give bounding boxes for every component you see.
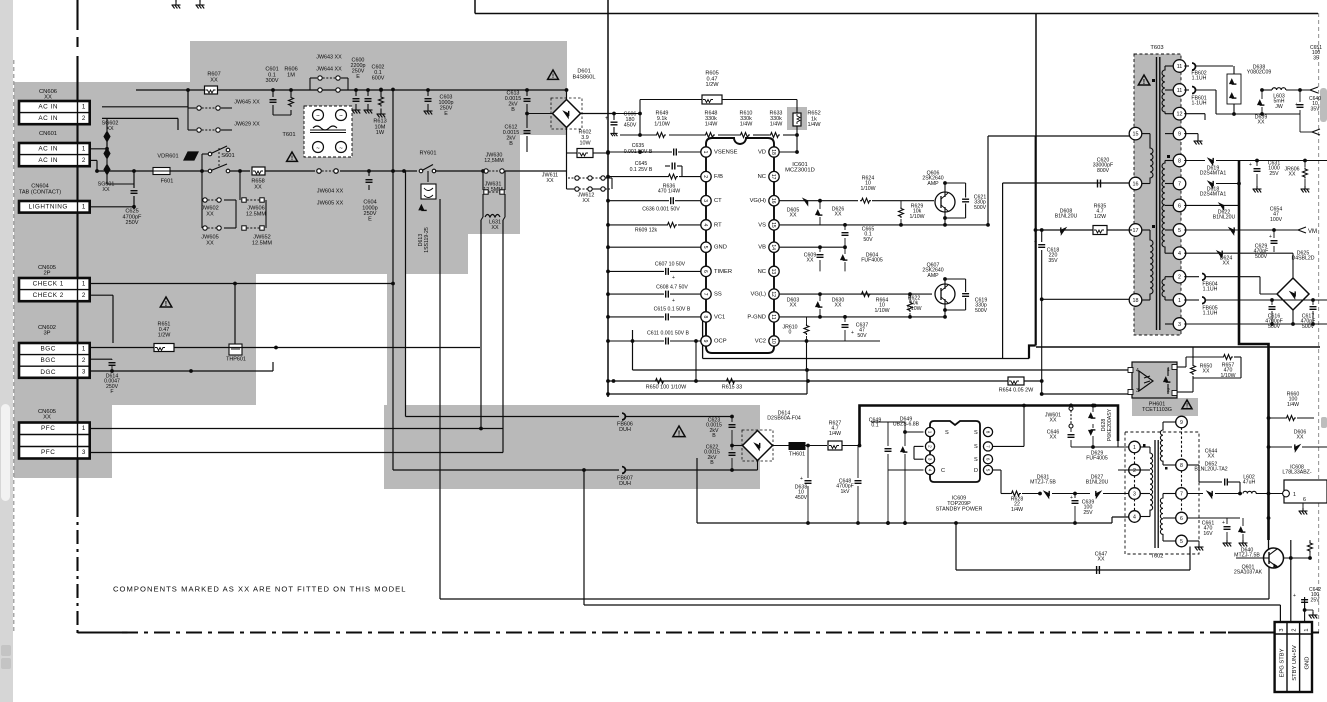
- svg-text:+: +: [1249, 162, 1252, 168]
- svg-text:C611 0.001 50V B: C611 0.001 50V B: [647, 330, 690, 336]
- IC601 pin 5 GND: [701, 242, 711, 252]
- T603 pin 16 left: [1129, 177, 1142, 190]
- wire pin2 T602: [1118, 469, 1140, 471]
- svg-text:9: 9: [702, 340, 708, 343]
- wire pin9 to lower rail: [695, 341, 697, 381]
- svg-text:1/4W: 1/4W: [829, 431, 841, 437]
- vertical x235 to THP601: [234, 284, 236, 345]
- svg-text:B4S860L: B4S860L: [572, 74, 595, 80]
- svg-text:JW643 XX: JW643 XX: [316, 54, 342, 60]
- svg-text:STBY UN+5V: STBY UN+5V: [1292, 645, 1298, 681]
- svg-text:+: +: [672, 298, 675, 304]
- svg-text:1/4W: 1/4W: [770, 121, 783, 127]
- gray block G narrow column: [387, 274, 406, 406]
- gray box T603: [1134, 54, 1181, 335]
- svg-text:3: 3: [1279, 628, 1285, 631]
- wire horizontal y347: [1036, 346, 1320, 348]
- T603 core: [1156, 57, 1158, 330]
- svg-text:F601: F601: [161, 179, 174, 185]
- wire y136 T603 pin15 row: [988, 135, 1132, 137]
- connector CN602: [19, 343, 90, 378]
- svg-text:25V: 25V: [1311, 597, 1321, 603]
- svg-text:2SA1037AK: 2SA1037AK: [1234, 570, 1263, 576]
- T602 pin 3: [1129, 488, 1141, 500]
- svg-text:7: 7: [1178, 181, 1181, 187]
- svg-text:13: 13: [770, 269, 776, 275]
- gray strip FB606/FB607: [384, 405, 760, 489]
- svg-text:500V: 500V: [1268, 324, 1281, 330]
- svg-text:BGC: BGC: [41, 346, 56, 353]
- svg-text:1W: 1W: [376, 130, 385, 136]
- svg-text:EPG STBY: EPG STBY: [1280, 648, 1286, 677]
- svg-text:16: 16: [1133, 181, 1139, 187]
- svg-text:XX: XX: [1098, 557, 1105, 563]
- svg-text:JW604 XX: JW604 XX: [317, 189, 344, 195]
- T603 pin 11 right: [1173, 84, 1186, 97]
- svg-text:B1NL20U: B1NL20U: [1213, 215, 1236, 221]
- svg-text:XX: XX: [582, 198, 590, 204]
- svg-text:PFC: PFC: [41, 425, 55, 432]
- svg-text:RY601: RY601: [419, 151, 436, 157]
- svg-text:!: !: [1143, 77, 1145, 86]
- T603 pin 5 right: [1173, 224, 1186, 237]
- resistor R658: [252, 167, 265, 175]
- left page edge strip: [0, 0, 13, 702]
- svg-text:3: 3: [82, 449, 86, 456]
- T603 phase marks: [1152, 79, 1155, 82]
- svg-text:S: S: [974, 457, 978, 463]
- gray block H: [406, 135, 520, 197]
- T603 winding right 11-12: [1162, 66, 1165, 114]
- IC609 pin 2: [925, 442, 934, 451]
- wire resistor row y135: [620, 134, 655, 136]
- svg-text:XX: XX: [206, 240, 214, 246]
- vertical x393: [392, 90, 394, 471]
- svg-text:16V: 16V: [1203, 531, 1213, 537]
- svg-text:7: 7: [985, 445, 990, 448]
- T602 pin 7: [1176, 488, 1188, 500]
- svg-text:3: 3: [927, 458, 932, 461]
- gray block A top: [190, 41, 567, 135]
- svg-text:AC IN: AC IN: [38, 146, 58, 153]
- svg-text:6: 6: [702, 270, 708, 273]
- ground pin9 T603: [1184, 133, 1198, 135]
- svg-text:COMPONENTS MARKED AS XX ARE NO: COMPONENTS MARKED AS XX ARE NOT FITTED O…: [113, 585, 407, 594]
- svg-text:12.5MM: 12.5MM: [246, 211, 267, 217]
- svg-text:5: 5: [985, 469, 990, 472]
- op-amp IC601 body: [706, 138, 774, 353]
- junction dots left: [105, 147, 109, 151]
- svg-text:CT: CT: [714, 198, 722, 204]
- ferrite bead FB607: [622, 467, 625, 474]
- wire CN601 pins to spark gaps: [89, 148, 107, 150]
- svg-text:6: 6: [1178, 203, 1181, 209]
- svg-text:300V: 300V: [265, 78, 278, 84]
- gray block C mid: [14, 197, 468, 274]
- svg-text:1/10W: 1/10W: [910, 214, 925, 220]
- svg-text:XX: XX: [835, 303, 842, 309]
- svg-text:D2S4MTA1: D2S4MTA1: [1200, 192, 1227, 198]
- ferrite bead FB604: [1202, 274, 1205, 281]
- T603 pin 9 right: [1173, 127, 1186, 140]
- T602 pin 4: [1129, 511, 1141, 523]
- svg-text:S601: S601: [221, 153, 235, 159]
- svg-text:2P: 2P: [43, 271, 50, 277]
- svg-text:25V: 25V: [1269, 171, 1279, 177]
- wire y300 T603 pin18 row: [1042, 298, 1132, 300]
- svg-text:VDR601: VDR601: [157, 154, 178, 160]
- svg-text:TAB (CONTACT): TAB (CONTACT): [19, 189, 61, 195]
- wire VS y224.9: [779, 224, 988, 226]
- svg-text:!: !: [165, 299, 167, 308]
- svg-text:VC2: VC2: [755, 339, 766, 345]
- capacitor C644 xx: [1213, 481, 1222, 483]
- warning triangle near T601: [287, 152, 298, 161]
- wire CN606 pin1: [101, 106, 103, 108]
- wire bridge D601 connections: [527, 113, 553, 115]
- svg-text:XX: XX: [1050, 418, 1057, 424]
- svg-text:VD: VD: [758, 150, 766, 156]
- svg-text:C608 4.7 50V: C608 4.7 50V: [656, 284, 688, 290]
- svg-text:14: 14: [770, 244, 776, 250]
- connector CN605 CHECK: [19, 278, 90, 301]
- wire FB607 row y469: [393, 469, 619, 471]
- svg-text:S: S: [974, 444, 978, 450]
- T603 pin 17 left: [1129, 224, 1142, 237]
- svg-text:1/4W: 1/4W: [1287, 402, 1299, 408]
- svg-text:F/B: F/B: [714, 174, 723, 180]
- T602 winding right 7-5: [1160, 494, 1163, 542]
- svg-text:XX: XX: [1289, 172, 1296, 178]
- gray block B left big: [14, 82, 406, 197]
- svg-text:E: E: [444, 111, 448, 117]
- svg-text:D2S4MTA1: D2S4MTA1: [1200, 171, 1227, 177]
- svg-text:SS: SS: [714, 292, 722, 298]
- right edge resistor: [1308, 542, 1313, 553]
- svg-text:4: 4: [1136, 368, 1139, 374]
- T603 pin 2 right: [1173, 270, 1186, 283]
- svg-text:1: 1: [1133, 445, 1136, 451]
- svg-text:8: 8: [1180, 463, 1183, 469]
- svg-text:GND: GND: [714, 245, 727, 251]
- transistor Q601: [1264, 548, 1284, 568]
- wire pin5 row VM: [1184, 229, 1298, 231]
- thermistor TH601: [789, 443, 805, 450]
- svg-text:AC IN: AC IN: [38, 157, 58, 164]
- T603 pin 6 right: [1173, 199, 1186, 212]
- IC601 pin 3 CT: [701, 196, 711, 206]
- svg-text:AC IN: AC IN: [38, 104, 58, 111]
- svg-text:12: 12: [1177, 112, 1183, 118]
- svg-text:XX: XX: [790, 213, 797, 219]
- svg-text:XX: XX: [1258, 120, 1265, 126]
- svg-text:DUH: DUH: [619, 481, 631, 487]
- fuse F601: [153, 168, 170, 175]
- wire pin5 T602 ground: [1187, 540, 1199, 542]
- svg-text:+: +: [605, 116, 609, 122]
- svg-text:R650 100 1/10W: R650 100 1/10W: [646, 384, 687, 390]
- T603 pin 12 right: [1173, 107, 1186, 120]
- board boundary bottom dash-dot: [78, 631, 123, 633]
- gray block F pfc: [14, 405, 112, 478]
- wire pin9 dash: [1181, 427, 1183, 459]
- svg-text:D4SBL2D: D4SBL2D: [1291, 256, 1314, 262]
- svg-text:25V: 25V: [1083, 510, 1093, 516]
- IC609 pin 5: [983, 465, 992, 474]
- svg-text:XX: XX: [1203, 369, 1210, 375]
- warning triangle FB strip: [673, 426, 685, 437]
- svg-text:VB: VB: [758, 245, 766, 251]
- IC601 pin 18 VD: [769, 147, 779, 157]
- svg-text:TH601: TH601: [789, 451, 805, 457]
- svg-text:8: 8: [1178, 158, 1181, 164]
- connector CN606: [19, 101, 90, 124]
- svg-text:XX: XX: [546, 178, 554, 184]
- svg-text:T602: T602: [1151, 554, 1164, 560]
- optocoupler PH601: [1132, 362, 1177, 398]
- IC601 pin 16 VG(H): [769, 196, 779, 206]
- T603 pin 18 left: [1129, 294, 1142, 307]
- svg-text:TCET1103G: TCET1103G: [1142, 407, 1172, 413]
- svg-text:35: 35: [1313, 55, 1319, 61]
- IC601 pin 2 F/B: [701, 171, 711, 181]
- T602 winding left 1-4: [1150, 447, 1153, 517]
- wire Q601 base: [1236, 557, 1269, 559]
- wire pin5/pin6 rows T603 right: [1184, 204, 1239, 206]
- svg-text:1: 1: [82, 281, 86, 288]
- T602 pin 9: [1176, 416, 1188, 428]
- wire pin3 row: [1184, 323, 1327, 325]
- svg-text:5: 5: [1178, 228, 1181, 234]
- svg-text:LIGHTNING: LIGHTNING: [29, 204, 68, 211]
- ferrite bead FB602: [1192, 63, 1196, 70]
- resistor R650 on rail: [654, 379, 665, 384]
- svg-text:2: 2: [1167, 388, 1170, 394]
- svg-text:10: 10: [770, 338, 776, 344]
- svg-text:!: !: [678, 428, 681, 437]
- svg-text:L78L33ABZ-: L78L33ABZ-: [1282, 470, 1311, 476]
- svg-text:18: 18: [770, 149, 776, 155]
- svg-text:VM: VM: [1308, 229, 1317, 235]
- svg-text:!: !: [291, 155, 293, 162]
- svg-text:1: 1: [82, 204, 86, 211]
- net arrow A: [1310, 87, 1318, 93]
- svg-text:3: 3: [1136, 388, 1139, 394]
- svg-text:5: 5: [702, 246, 708, 249]
- wire P-GND y316.9: [779, 316, 945, 318]
- svg-text:7: 7: [702, 293, 708, 296]
- ferrite bead FB601: [1192, 87, 1196, 94]
- svg-text:AMP: AMP: [927, 181, 939, 187]
- wire pin8 +B: [1184, 160, 1205, 162]
- zener D640 TR: [1239, 527, 1244, 532]
- svg-text:MCZ3001D: MCZ3001D: [785, 168, 815, 174]
- svg-text:15: 15: [1133, 132, 1139, 138]
- wire pin4 row: [1184, 252, 1293, 254]
- gray box PH601: [1132, 362, 1177, 398]
- connector CN605 PFC: [19, 423, 90, 459]
- right page edge strip: [1320, 0, 1327, 702]
- svg-text:XX: XX: [210, 77, 218, 83]
- jumper JW604 on AC wire: [317, 169, 321, 173]
- svg-text:1/4W: 1/4W: [740, 121, 753, 127]
- svg-text:10W: 10W: [579, 140, 591, 146]
- T602 pin 6: [1176, 512, 1188, 524]
- svg-text:470 1/4W: 470 1/4W: [658, 189, 680, 195]
- wire DGC3 y371: [89, 370, 273, 372]
- IC601 pin 11 P-GND: [769, 312, 779, 322]
- svg-text:500V: 500V: [974, 205, 987, 211]
- svg-text:450V: 450V: [624, 122, 637, 128]
- svg-text:5: 5: [1180, 539, 1183, 545]
- svg-text:2: 2: [1178, 275, 1181, 281]
- svg-text:50V: 50V: [857, 333, 867, 339]
- net arrow y132: [1312, 129, 1320, 135]
- IC609 body: [930, 421, 980, 482]
- svg-text:1SS119-25: 1SS119-25: [424, 227, 430, 253]
- svg-text:~: ~: [316, 146, 320, 152]
- transformer T602 dashed box: [1125, 432, 1199, 554]
- T603 pin 4 right: [1173, 247, 1186, 260]
- svg-text:XX: XX: [491, 225, 499, 231]
- wire y447 to T602 pin1: [1071, 446, 1129, 448]
- svg-text:DGC: DGC: [40, 369, 56, 376]
- svg-text:500V: 500V: [1255, 254, 1268, 260]
- svg-text:STANDBY POWER: STANDBY POWER: [936, 506, 983, 512]
- svg-text:1: 1: [82, 425, 86, 432]
- svg-text:2: 2: [82, 157, 86, 164]
- svg-text:B: B: [712, 433, 716, 439]
- svg-text:+: +: [1269, 234, 1272, 240]
- wire PFC1: [89, 428, 503, 430]
- connector CN604 LIGHTNING: [19, 201, 90, 213]
- svg-text:B1NL20U: B1NL20U: [1055, 214, 1078, 220]
- connector EPG STBY: [1275, 622, 1312, 692]
- svg-text:6: 6: [1180, 516, 1183, 522]
- svg-text:2: 2: [1292, 628, 1298, 631]
- connector CN601: [19, 143, 90, 166]
- svg-text:1/4W: 1/4W: [705, 121, 718, 127]
- svg-text:2: 2: [927, 445, 932, 448]
- svg-text:NC: NC: [758, 174, 766, 180]
- svg-text:1/10W: 1/10W: [654, 121, 670, 127]
- svg-text:4: 4: [702, 224, 708, 227]
- svg-text:CHECK 1: CHECK 1: [33, 281, 64, 288]
- svg-text:D: D: [974, 468, 978, 474]
- svg-text:1/10W: 1/10W: [861, 186, 876, 192]
- svg-text:E: E: [356, 74, 360, 80]
- svg-text:1.1UH: 1.1UH: [1203, 311, 1218, 317]
- ground top 2: [199, 2, 201, 5]
- jumpers JW604/JW605 under T601: [317, 169, 321, 173]
- wire main vertical bus x608: [607, 0, 609, 397]
- svg-text:18: 18: [1133, 298, 1139, 304]
- svg-text:XX: XX: [206, 211, 214, 217]
- ground top 1: [175, 2, 177, 5]
- IC609 pin 3: [925, 455, 934, 464]
- gray patch R652: [787, 107, 807, 130]
- svg-text:NC: NC: [758, 269, 766, 275]
- T602 pin 2: [1129, 464, 1141, 476]
- svg-text:XX: XX: [43, 415, 51, 421]
- wire BGC2 D614cap: [89, 358, 112, 360]
- svg-text:1: 1: [1304, 628, 1310, 631]
- junction dots misc: [606, 151, 610, 155]
- svg-text:P6KE200ASY: P6KE200ASY: [1107, 408, 1113, 441]
- svg-text:8: 8: [702, 316, 708, 319]
- svg-text:47uH: 47uH: [1243, 480, 1256, 486]
- svg-text:XX: XX: [102, 187, 110, 193]
- svg-text:VG(L): VG(L): [751, 292, 767, 298]
- svg-text:B1NL20U: B1NL20U: [1086, 480, 1109, 486]
- svg-text:XX: XX: [835, 212, 842, 218]
- ferrite bead FB605: [1202, 297, 1205, 304]
- svg-text:AMP: AMP: [927, 273, 939, 279]
- IC601 pin 10 VC2: [769, 336, 779, 346]
- svg-text:0: 0: [789, 330, 792, 336]
- svg-text:XX: XX: [1223, 261, 1230, 267]
- wire Q601 collector: [1268, 540, 1270, 549]
- svg-text:1: 1: [82, 146, 86, 153]
- svg-text:500V: 500V: [975, 308, 988, 314]
- wire JW611 JW612 row: [566, 152, 568, 176]
- svg-text:XX: XX: [1050, 435, 1057, 441]
- svg-text:2: 2: [82, 357, 86, 364]
- T603 pin 11 right: [1173, 60, 1186, 73]
- svg-text:1/4W: 1/4W: [1011, 507, 1023, 513]
- svg-text:1/10W: 1/10W: [875, 308, 890, 314]
- resistor R615 on rail: [725, 379, 736, 384]
- wire y230 T603 pin17 row: [1036, 229, 1133, 231]
- wire stby un+5v down: [1290, 540, 1292, 622]
- svg-text:S: S: [945, 430, 949, 436]
- svg-text:VS: VS: [758, 222, 766, 228]
- svg-text:~: ~: [339, 146, 343, 152]
- svg-text:1kV: 1kV: [841, 489, 850, 495]
- svg-text:2: 2: [82, 115, 86, 122]
- T603 pin 1 right: [1173, 294, 1186, 307]
- net arrow VM: [1298, 227, 1306, 233]
- IC601 pin 9 OCP: [701, 336, 711, 346]
- gray block E left lower: [14, 274, 256, 405]
- wire FB606 row y416: [406, 416, 620, 418]
- svg-text:!: !: [1186, 403, 1188, 410]
- svg-text:R615 33: R615 33: [722, 384, 742, 390]
- left dashed margin line: [13, 60, 15, 632]
- svg-text:THP601: THP601: [226, 356, 246, 362]
- svg-text:C615 0.1 50V B: C615 0.1 50V B: [654, 306, 691, 312]
- svg-text:3: 3: [1178, 322, 1181, 328]
- svg-text:3: 3: [702, 199, 708, 202]
- svg-text:2: 2: [82, 292, 86, 299]
- svg-text:0.1 25V B: 0.1 25V B: [630, 167, 653, 173]
- svg-text:1: 1: [1178, 298, 1181, 304]
- +B thick bus right side: [1239, 161, 1269, 541]
- svg-text:JW: JW: [1275, 104, 1283, 110]
- svg-text:1/2W: 1/2W: [158, 332, 171, 338]
- wire main AC y171: [97, 170, 153, 172]
- svg-text:JW644 XX: JW644 XX: [316, 66, 342, 72]
- IC601 pin 6 TIMER: [701, 266, 711, 276]
- IC601 pin 15 VS: [769, 220, 779, 230]
- IC601 pin 13 NC: [769, 266, 779, 276]
- T602 pin 5: [1176, 535, 1188, 547]
- svg-text:XX: XX: [254, 184, 262, 190]
- svg-text:250V: 250V: [125, 220, 138, 226]
- IC601 pin 1 VSENSE: [701, 147, 711, 157]
- board boundary vertical dash-dot: [76, 0, 78, 30]
- svg-text:450V: 450V: [795, 495, 808, 501]
